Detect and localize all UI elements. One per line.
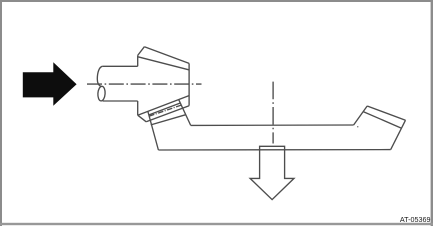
cone step up vertical [137,55,139,66]
bar end band lower [363,112,401,129]
shaft bottom line [103,100,138,102]
cone bottom tip edge [138,115,147,122]
black direction arrow (pointing right) [23,62,77,105]
bar end band upper [367,106,405,120]
tab upper edge [149,103,181,115]
shaft top line [102,65,138,67]
shaft end-face ellipse [97,86,105,101]
horizontal center line [87,83,202,85]
cone bottom inner line [146,106,189,122]
label AT-05369 [400,215,431,224]
down arrow outline [250,146,294,199]
cone step down vertical [137,101,139,115]
bar right upturn [354,106,368,125]
arm right edge [179,100,191,126]
bar end face [391,120,406,149]
cone bottom silhouette [138,96,189,116]
cone top silhouette [144,47,189,64]
cone right face [188,63,190,105]
shaft left cap arc [97,66,102,86]
bar top edge [191,124,354,126]
tab lower edge [151,115,186,125]
arm left edge [148,112,159,151]
vertical center line [272,82,274,144]
cone top chamfer [138,47,145,56]
bar bottom edge [158,149,390,151]
speck [357,126,358,127]
cone top inner line [138,57,189,70]
tab dash-dot axis [149,105,181,116]
